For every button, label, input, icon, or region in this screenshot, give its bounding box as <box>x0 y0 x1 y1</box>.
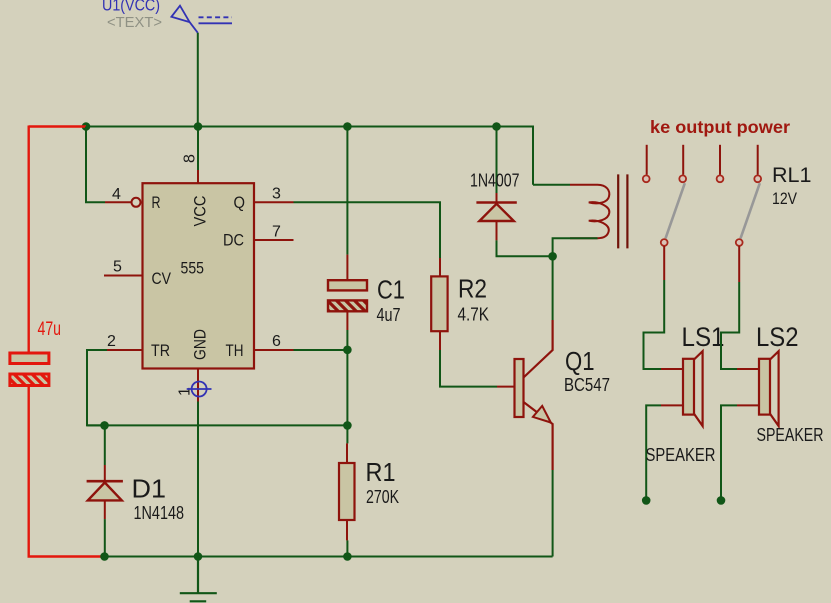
transistor Q1 bar <box>515 359 524 417</box>
wire red from cap 47u to top rail <box>29 126 86 354</box>
svg-text:5: 5 <box>113 259 122 276</box>
wire arm2 to LS2 (red part) <box>738 246 740 282</box>
wire R2 bottom to Q1 base <box>440 350 497 387</box>
terminal dot LS1 <box>642 496 651 505</box>
resistor R1 stub top <box>346 443 348 463</box>
IC U1 555 body <box>143 183 255 368</box>
wire pin2 down-left <box>87 350 107 425</box>
svg-text:2: 2 <box>107 333 116 350</box>
svg-text:555: 555 <box>181 259 205 278</box>
svg-text:TR: TR <box>151 341 170 360</box>
svg-text:TH: TH <box>226 341 244 360</box>
svg-text:1N4007: 1N4007 <box>470 170 520 191</box>
node top rail at x347 (C1) <box>343 122 352 131</box>
svg-text:VCC: VCC <box>191 196 210 227</box>
relay arm circle 1 <box>661 239 668 246</box>
svg-text:C1: C1 <box>377 275 405 305</box>
node top rail at x496 (1N4007) <box>492 122 501 131</box>
relay contact stub 1 <box>646 145 648 175</box>
power terminal U1(VCC) symbol <box>171 6 232 33</box>
wire relay coil top lead <box>533 184 570 186</box>
Q1 emitter lead <box>524 402 553 470</box>
relay RL1 coil <box>570 185 609 239</box>
wire emitter to ground rail <box>552 470 554 557</box>
relay contact stub 4 <box>757 145 759 175</box>
node collector junction <box>548 252 557 261</box>
pin 5 stub <box>104 275 143 277</box>
svg-text:CV: CV <box>152 269 172 288</box>
pin 2 stub <box>106 349 143 351</box>
Q1 base stub <box>497 386 515 388</box>
node TH/C1 junction <box>343 346 352 355</box>
diode D1 stubs <box>104 465 106 519</box>
svg-text:Q: Q <box>234 193 246 212</box>
svg-text:Q1: Q1 <box>565 346 595 376</box>
wire arm2 to LS2 (green jog) <box>721 282 739 369</box>
svg-text:R1: R1 <box>366 457 396 487</box>
capacitor C1 plate + <box>328 280 367 290</box>
wire pin8 to rail <box>197 127 199 171</box>
wire pin6 (TH) to C1 net <box>294 349 348 351</box>
speaker LS2 body <box>759 359 770 415</box>
node y425 at R1 <box>343 421 352 430</box>
svg-text:4: 4 <box>112 186 121 203</box>
wire R1 top <box>346 425 348 443</box>
svg-text:3: 3 <box>272 186 281 203</box>
wire pin4 to rail <box>86 127 105 203</box>
wire red cap 47u bottom to ground rail <box>29 386 102 557</box>
wire C1 bottom down to y425 rail <box>346 330 348 425</box>
LS2 bottom terminal stub <box>737 404 759 406</box>
svg-text:12V: 12V <box>772 189 798 208</box>
diode D1 cathode bar <box>87 480 123 483</box>
wire collector node down <box>552 256 554 320</box>
svg-text:DC: DC <box>223 231 244 250</box>
svg-text:LS1: LS1 <box>682 322 725 352</box>
relay core line 1 <box>617 174 619 248</box>
diode 1N4007 triangle <box>479 204 513 221</box>
relay contact circle 1 <box>643 175 650 182</box>
speaker LS1 cone <box>694 351 703 426</box>
svg-text:8: 8 <box>182 154 199 163</box>
wire pin1 to ground rail <box>197 402 199 557</box>
pin 6 stub <box>254 349 294 351</box>
relay contact stub 2 <box>682 145 684 175</box>
wire bottom ground rail <box>105 556 553 558</box>
pin 4 stub <box>105 201 132 203</box>
relay core line 2 <box>626 174 628 248</box>
diode 1N4007 cathode bar <box>476 201 516 204</box>
wire relay coil bottom lead <box>553 238 598 256</box>
speaker LS1 body <box>683 359 694 415</box>
C1 bottom stub <box>346 311 348 330</box>
node ground rail at pin1 <box>194 552 203 561</box>
wire D1 bottom <box>104 519 106 556</box>
wire y425 rail (TR/TH/R1/D1 net) <box>87 424 347 426</box>
resistor R1 stub bottom <box>346 520 348 540</box>
svg-text:U1(VCC): U1(VCC) <box>102 0 160 15</box>
wire top power rail <box>86 127 533 185</box>
pin 3 stub <box>254 201 294 203</box>
node y425 at D1 <box>100 421 109 430</box>
wire VCC terminal to top rail <box>197 33 199 127</box>
ground symbol <box>180 557 217 602</box>
svg-text:ke output power: ke output power <box>650 117 790 137</box>
wire LS1 bottom down <box>646 405 661 500</box>
relay switch arm 2 (gray) <box>741 183 760 238</box>
svg-text:6: 6 <box>272 333 281 350</box>
wire arm1 to LS1 (red part) <box>663 246 665 280</box>
relay arm circle 2 <box>736 239 743 246</box>
LS2 top terminal stub <box>737 368 759 370</box>
svg-text:LS2: LS2 <box>756 322 799 352</box>
resistor R2 stub top <box>439 258 441 276</box>
resistor R1 body <box>339 463 355 520</box>
svg-text:RL1: RL1 <box>772 164 812 187</box>
wire 1N4007 top from rail <box>496 127 498 194</box>
node top rail at x198 (VCC pin 8) <box>194 122 203 131</box>
svg-text:270K: 270K <box>366 486 399 507</box>
capacitor C1 plate - (hatched) <box>328 300 367 311</box>
svg-text:<TEXT>: <TEXT> <box>107 14 162 31</box>
Q1 collector lead <box>524 320 553 378</box>
wire LS2 bottom down <box>721 405 737 500</box>
svg-text:R: R <box>152 193 161 212</box>
LS1 bottom terminal stub <box>661 404 683 406</box>
capacitor 47u plate + <box>10 353 49 364</box>
node ground rail at D1 <box>100 552 109 561</box>
LS1 top terminal stub <box>661 368 683 370</box>
wire C1 top from rail <box>346 127 348 255</box>
svg-text:GND: GND <box>191 329 210 360</box>
svg-text:R2: R2 <box>458 274 487 304</box>
svg-text:7: 7 <box>272 224 281 241</box>
pin 1 stub <box>197 369 199 402</box>
svg-text:BC547: BC547 <box>564 374 610 395</box>
wire R1 bottom <box>346 540 348 556</box>
pin 8 stub <box>197 170 199 183</box>
diode D1 triangle <box>88 483 122 501</box>
svg-text:1N4148: 1N4148 <box>134 502 185 523</box>
C1 top stub <box>346 255 348 281</box>
node top rail at x86 <box>82 122 91 131</box>
svg-text:SPEAKER: SPEAKER <box>757 424 824 445</box>
diode 1N4007 stubs <box>496 193 498 240</box>
relay contact circle 4 <box>754 175 761 182</box>
pin 7 stub <box>254 239 294 241</box>
relay switch arm 1 (gray) <box>666 183 685 238</box>
relay contact stub 3 <box>719 145 721 175</box>
svg-text:47u: 47u <box>38 319 62 340</box>
svg-text:D1: D1 <box>132 474 167 504</box>
Q1 emitter arrow <box>533 406 551 423</box>
wire D1 top <box>104 425 106 465</box>
wire arm1 to LS1 (green jog) <box>644 280 665 369</box>
capacitor 47u plate - (hatched) <box>10 374 49 386</box>
pin 4 bubble <box>132 198 141 207</box>
relay contact circle 3 <box>717 175 724 182</box>
speaker LS2 cone <box>770 351 779 426</box>
resistor R2 stub bottom <box>439 331 441 350</box>
node ground rail at R1 <box>343 552 352 561</box>
svg-text:4u7: 4u7 <box>377 304 401 325</box>
terminal dot LS2 <box>717 496 726 505</box>
wire pin3 (Q) to R2 <box>294 202 441 258</box>
relay contact circle 2 <box>679 175 686 182</box>
wire 1N4007 bottom to collector node <box>497 240 553 256</box>
resistor R2 body <box>431 276 447 331</box>
pin1 hidden-power marker (blue) <box>187 382 212 397</box>
svg-text:4.7K: 4.7K <box>458 304 490 325</box>
svg-text:SPEAKER: SPEAKER <box>646 444 716 465</box>
